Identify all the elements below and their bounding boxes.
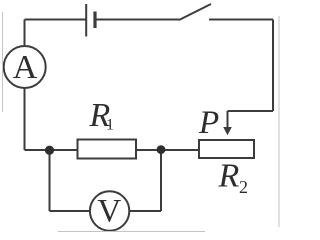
svg-text:V: V [97, 194, 121, 230]
svg-text:R: R [218, 158, 240, 195]
svg-text:P: P [198, 105, 219, 141]
wire right vertical [272, 20, 274, 112]
wire to wiper [228, 110, 274, 112]
svg-text:1: 1 [106, 117, 114, 134]
wire left branch down to voltmeter loop [49, 150, 51, 211]
wire pot to right node [161, 149, 199, 151]
potentiometer R2 body [199, 140, 254, 158]
ammeter A circle [4, 46, 46, 88]
wire bottom-right horizontal [129, 210, 161, 212]
wire R1 to right node [136, 149, 161, 151]
battery B1 [86, 4, 95, 37]
wire top-left horizontal [25, 19, 87, 21]
switch S1 (open blade) [179, 4, 211, 20]
wire top-right horizontal [209, 19, 273, 21]
node right junction [157, 145, 166, 154]
wiper arrow of potentiometer [223, 111, 232, 135]
wire battery to switch [95, 19, 179, 21]
wire left vertical bottom (ammeter to row) [24, 88, 26, 150]
wire left node to R1 [25, 149, 78, 151]
wire bottom-left horizontal [50, 210, 91, 212]
svg-text:2: 2 [239, 177, 248, 197]
wire left vertical top (to ammeter) [24, 20, 26, 47]
svg-text:A: A [13, 49, 38, 86]
voltmeter V circle [90, 191, 129, 230]
node left junction [45, 146, 54, 155]
wire right branch down to voltmeter loop [160, 150, 162, 212]
resistor R1 [78, 140, 137, 159]
